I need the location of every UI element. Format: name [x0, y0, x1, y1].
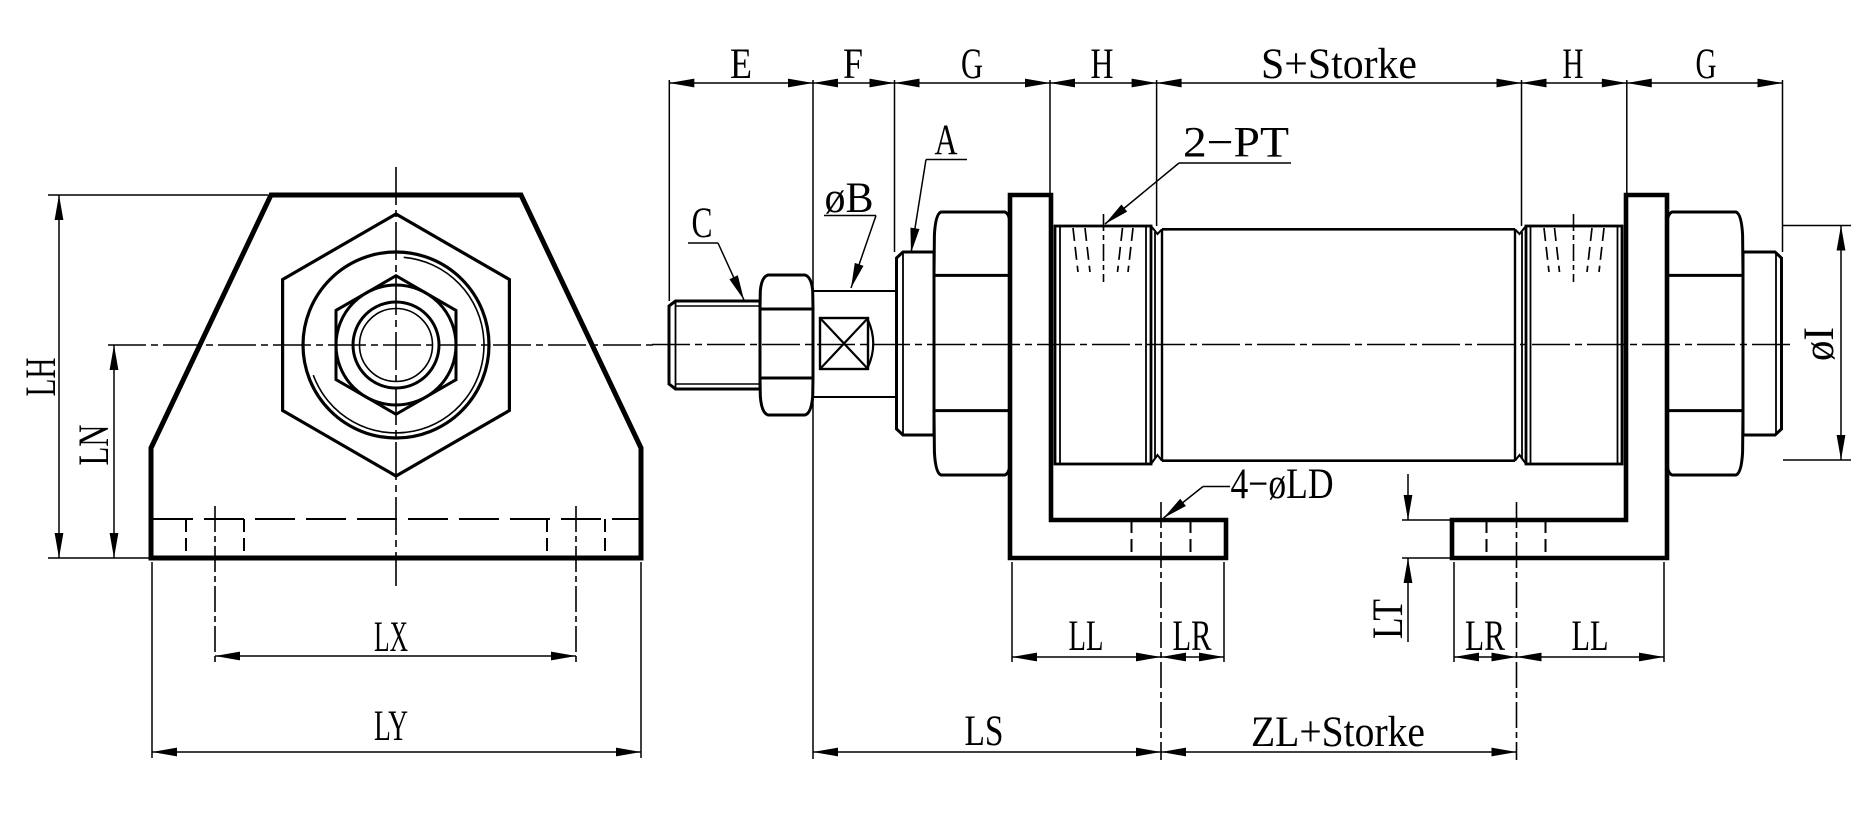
svg-text:C: C — [692, 200, 713, 247]
svg-text:LS: LS — [965, 708, 1004, 755]
bracket body outline (front view) — [151, 195, 641, 558]
svg-text:S+Storke: S+Storke — [1261, 41, 1417, 88]
svg-text:LX: LX — [374, 614, 408, 661]
piston rod thread side view — [669, 301, 760, 389]
rear end boss — [1743, 252, 1782, 435]
svg-text:LT: LT — [1365, 599, 1412, 639]
svg-text:A: A — [935, 117, 958, 164]
side view centerline — [652, 344, 1794, 346]
hidden bolt hole left — [185, 519, 187, 556]
top dimension chain extension lines — [668, 80, 670, 301]
dimension LH — [48, 194, 268, 196]
svg-text:4−øLD: 4−øLD — [1231, 461, 1334, 508]
tube crimp rear — [1515, 226, 1526, 234]
dimensions LS and ZL+Storke — [813, 751, 1517, 753]
svg-text:H: H — [1091, 41, 1114, 88]
dimension LN — [113, 345, 115, 558]
right foot mounting hole — [1486, 520, 1488, 558]
dimension LT — [1402, 519, 1450, 521]
piston rod circle — [353, 302, 439, 388]
dimensions LL LR left foot — [1011, 562, 1013, 662]
hex boss outline (front view) — [283, 214, 510, 476]
mounting nut hexagon (front view) — [336, 276, 456, 415]
svg-text:LL: LL — [1069, 613, 1104, 660]
rear port PT thread marks — [1573, 214, 1575, 282]
boss chamfer arc — [313, 257, 484, 433]
front view horizontal centerline — [108, 344, 653, 346]
svg-text:ZL+Storke: ZL+Storke — [1251, 709, 1425, 756]
tube crimp front — [1151, 226, 1162, 234]
rod lock nut side view — [760, 275, 813, 415]
bolt hole centerline left — [214, 506, 216, 663]
left foot mounting hole — [1131, 520, 1133, 558]
svg-text:G: G — [1696, 41, 1717, 88]
front boss flange (A) — [897, 252, 935, 435]
front mounting nut side view — [934, 212, 1012, 475]
front port PT thread marks — [1103, 214, 1105, 282]
bolt hole centerline right — [575, 506, 577, 663]
hidden base edge — [153, 518, 639, 520]
svg-text:LY: LY — [374, 703, 408, 750]
svg-text:øI: øI — [1796, 327, 1843, 361]
svg-text:E: E — [730, 41, 752, 88]
svg-text:LH: LH — [18, 358, 65, 397]
rear cylinder head — [1526, 226, 1622, 464]
nut chamfer circle — [336, 285, 456, 405]
dimension LY — [151, 562, 153, 758]
rod thread circle — [360, 309, 433, 382]
svg-text:LR: LR — [1173, 613, 1212, 660]
wrench flat section (oB) — [813, 290, 895, 292]
right L-bracket side view — [1452, 195, 1667, 558]
front view vertical centerline — [395, 167, 397, 586]
svg-text:H: H — [1563, 41, 1584, 88]
front cylinder head — [1055, 226, 1151, 464]
hidden bolt hole right — [546, 519, 548, 556]
svg-text:LN: LN — [71, 425, 118, 466]
left L-bracket side view — [1010, 195, 1226, 558]
svg-text:2−PT: 2−PT — [1183, 120, 1289, 167]
rear mounting nut side view — [1665, 212, 1743, 475]
top dimension chain line — [669, 82, 1782, 84]
svg-text:F: F — [843, 41, 863, 88]
cylinder tube — [1162, 228, 1515, 231]
boss face circle — [303, 252, 489, 438]
svg-text:LR: LR — [1465, 613, 1505, 660]
svg-text:LL: LL — [1572, 613, 1609, 660]
svg-text:G: G — [961, 41, 983, 88]
top chain arrows — [669, 79, 694, 88]
dimension LX — [215, 655, 576, 657]
dimension oI — [1783, 225, 1851, 227]
